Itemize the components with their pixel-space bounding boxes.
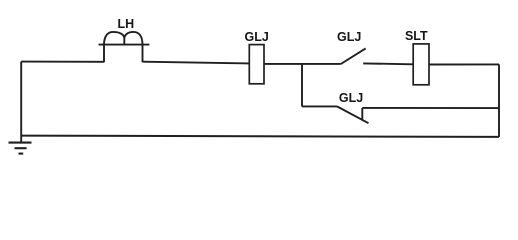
contact GLJ (top, normally open) bbox=[341, 48, 366, 64]
relay SLT bbox=[413, 44, 429, 85]
wire: top bus, left segment bbox=[21, 61, 104, 63]
wire: bottom bus bbox=[21, 136, 499, 137]
wire: left vertical (top bus down to ground) bbox=[20, 62, 22, 143]
svg-text:LH: LH bbox=[117, 17, 134, 31]
svg-text:GLJ: GLJ bbox=[337, 30, 361, 44]
contact GLJ (bottom, normally open, blade down) bbox=[337, 106, 369, 123]
wire: top bus, coil to contact bbox=[264, 63, 341, 65]
wire: top bus, LH to GLJ coil bbox=[143, 62, 250, 64]
wire: branch left lead bbox=[302, 105, 337, 107]
wire: branch right lead bbox=[362, 107, 499, 109]
wire: branch vertical drop bbox=[301, 64, 303, 107]
relay coil GLJ bbox=[249, 45, 264, 84]
svg-text:GLJ: GLJ bbox=[339, 91, 363, 105]
current transformer LH bbox=[99, 32, 150, 62]
svg-text:GLJ: GLJ bbox=[245, 30, 269, 44]
svg-text:SLT: SLT bbox=[405, 29, 428, 43]
ground bbox=[9, 143, 32, 154]
wire: top bus, contact to SLT bbox=[363, 62, 413, 65]
wire: top bus, right segment bbox=[429, 63, 499, 65]
wire: right vertical bbox=[498, 64, 500, 136]
